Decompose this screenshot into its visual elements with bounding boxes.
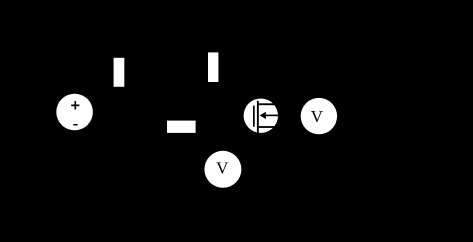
resistor R3 <box>167 121 196 133</box>
svg-text:V: V <box>311 107 324 126</box>
voltmeter VM2 <box>301 98 337 134</box>
voltage source V1 <box>56 94 93 131</box>
resistor R2 <box>208 52 218 82</box>
resistor R1 <box>114 58 125 87</box>
voltmeter VM1 <box>204 151 241 188</box>
svg-text:V: V <box>216 159 229 178</box>
transistor M1 <box>244 99 279 134</box>
